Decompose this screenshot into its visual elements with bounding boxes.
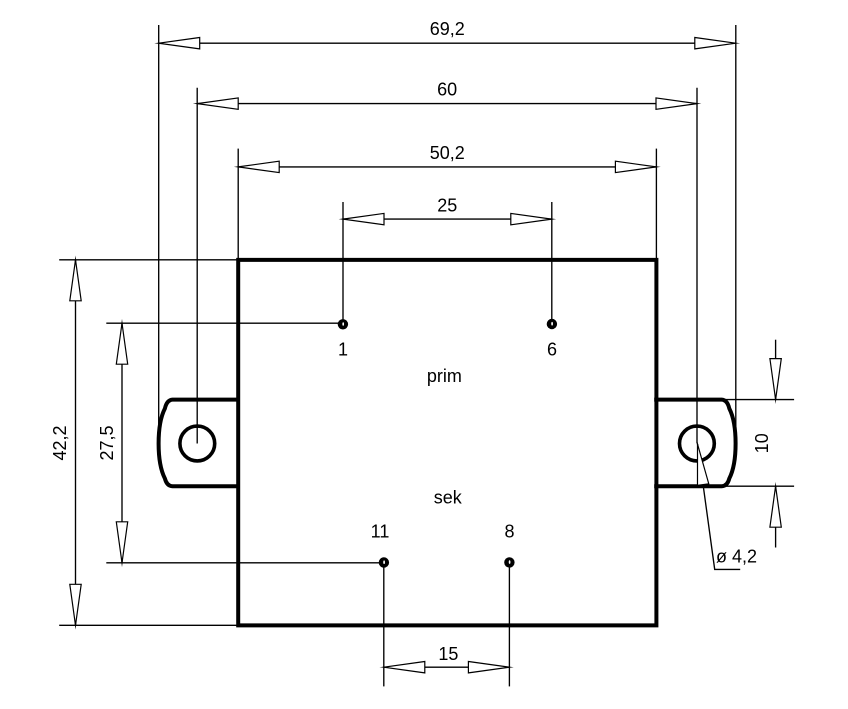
extension line 27,5 bottom to pin 11 (106, 562, 380, 564)
svg-text:50,2: 50,2 (430, 143, 465, 163)
extension line 42,2 top (59, 259, 237, 261)
svg-text:25: 25 (437, 195, 457, 215)
extension line 10 bottom (720, 485, 794, 487)
extension line 25 right (551, 202, 553, 319)
extension line 27,5 top to pin 1 (106, 322, 339, 324)
svg-text:1: 1 (338, 340, 348, 360)
svg-text:60: 60 (437, 80, 457, 100)
extension line 50,2 right (655, 149, 657, 259)
svg-text:69,2: 69,2 (430, 19, 465, 39)
extension line 69,2 left (158, 25, 160, 433)
extension line 15 left from pin 11 (383, 566, 385, 686)
leader arrow for hole diameter (692, 443, 740, 569)
left mounting tab (159, 400, 240, 487)
right tab hole (680, 426, 715, 461)
left tab hole (180, 426, 215, 461)
dimension 60 (197, 80, 697, 110)
svg-text:ø 4,2: ø 4,2 (716, 547, 757, 567)
dimension 15 (384, 644, 510, 673)
svg-text:42,2: 42,2 (50, 425, 70, 460)
dimension 50,2 (238, 143, 656, 173)
right mounting tab (654, 400, 735, 487)
extension line 60 left (196, 88, 198, 444)
dimension 27,5 (97, 323, 128, 563)
pin 1 (338, 319, 348, 359)
svg-text:11: 11 (371, 522, 390, 542)
svg-text:6: 6 (547, 340, 557, 360)
pin 8 (504, 522, 514, 568)
extension line 25 left (342, 202, 344, 320)
svg-text:8: 8 (504, 522, 514, 542)
dimension 25 (343, 195, 552, 225)
extension line 15 right from pin 8 (508, 566, 510, 686)
pin 6 (547, 319, 557, 360)
pin 11 (371, 522, 390, 568)
dimension 69,2 (159, 19, 736, 49)
extension line 42,2 bottom (59, 624, 237, 626)
extension line 10 top (719, 399, 794, 401)
svg-text:10: 10 (752, 433, 772, 453)
svg-text:15: 15 (438, 644, 458, 664)
extension line 50,2 left (237, 149, 239, 259)
extension line 69,2 right (735, 25, 737, 433)
dimension 42,2 (50, 260, 81, 626)
dimension 10 (752, 340, 781, 548)
svg-text:prim: prim (427, 366, 462, 386)
svg-text:sek: sek (434, 487, 463, 507)
svg-text:27,5: 27,5 (97, 425, 117, 460)
body outline (238, 260, 656, 626)
extension line 60 right (696, 88, 698, 444)
